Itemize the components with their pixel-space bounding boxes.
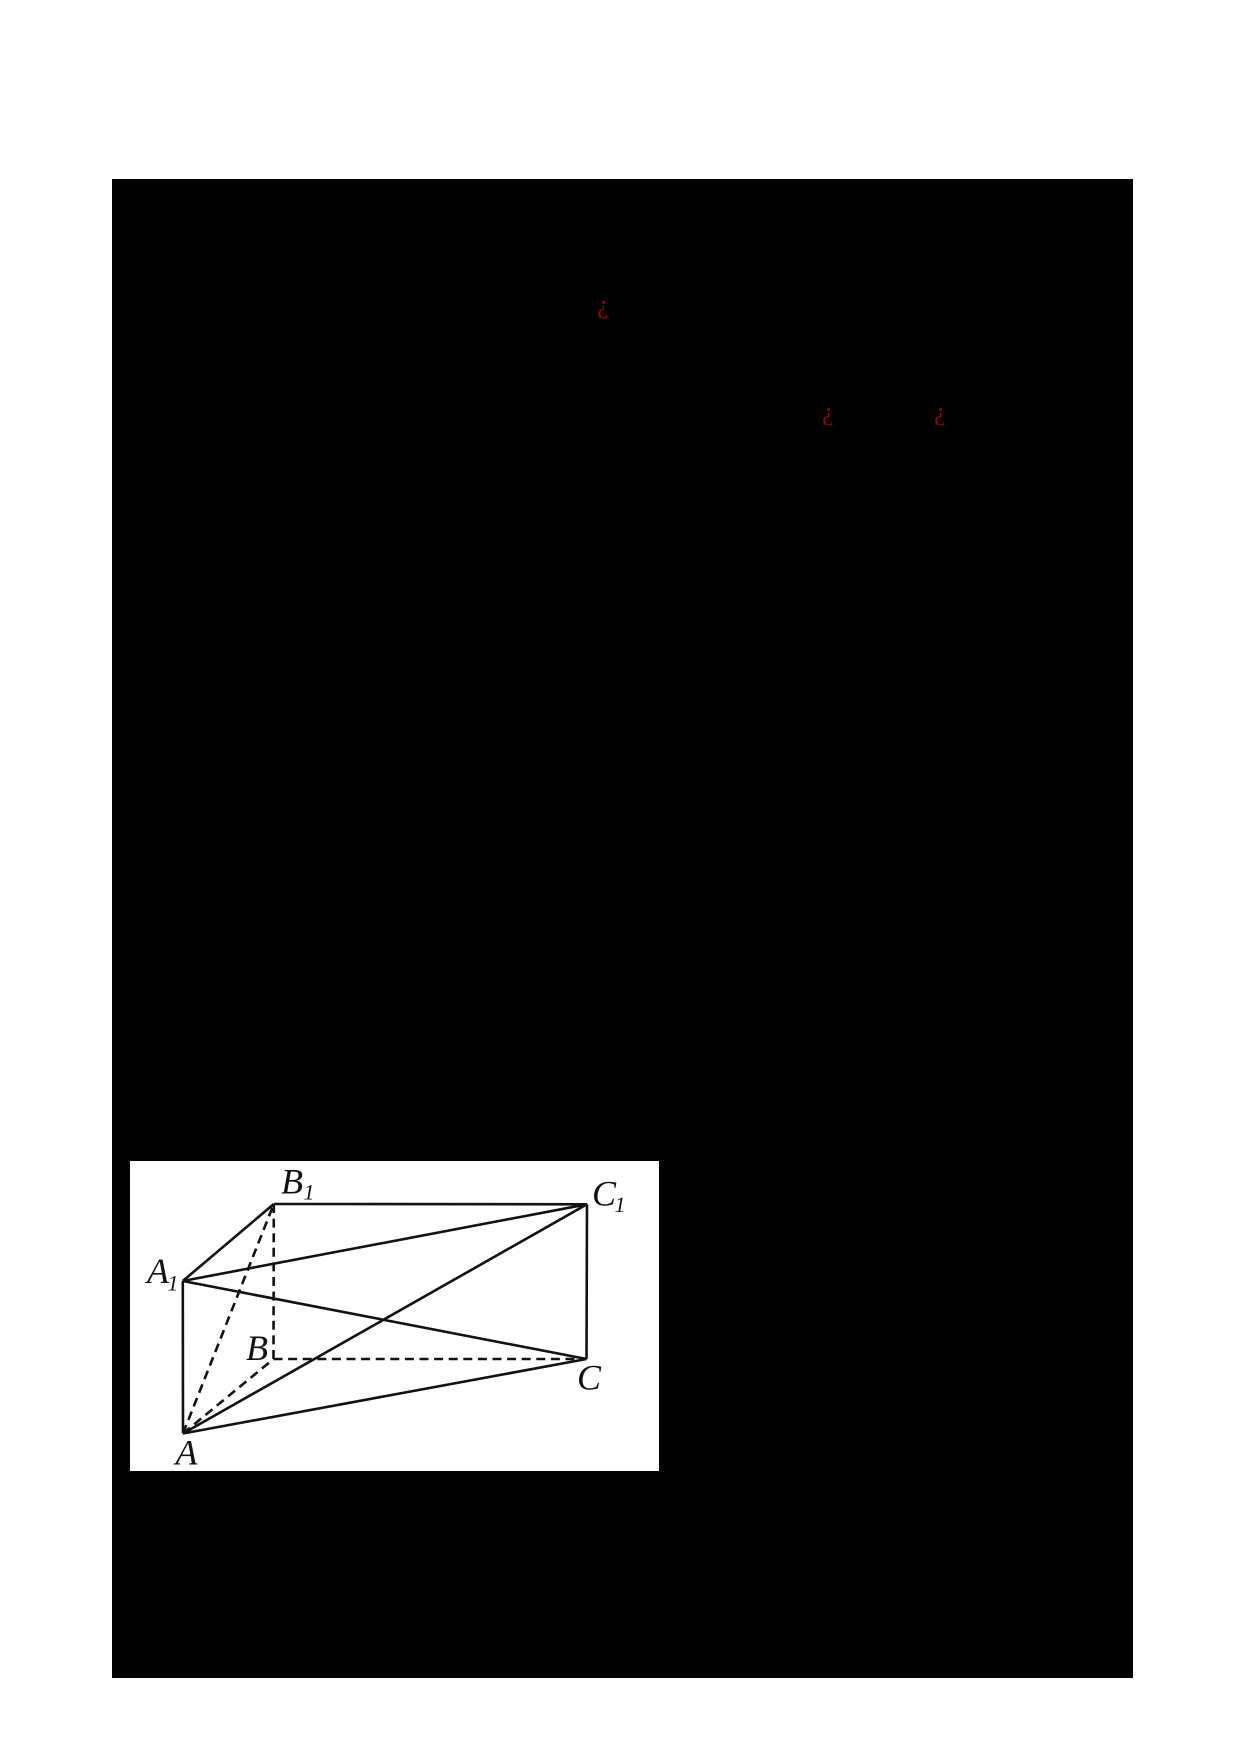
svg-text:B: B xyxy=(246,1328,268,1368)
svg-text:1: 1 xyxy=(304,1180,315,1205)
diagonal A-C1 xyxy=(183,1204,587,1433)
red glyph 1 xyxy=(597,292,609,318)
edge B1-C1 xyxy=(274,1203,587,1206)
svg-text:B: B xyxy=(281,1162,303,1202)
edge A-A1 xyxy=(182,1281,185,1434)
edge A-C xyxy=(183,1359,587,1434)
hidden edge A-B dashed xyxy=(183,1359,274,1434)
edge A1-C1 xyxy=(183,1204,587,1281)
svg-text:C: C xyxy=(592,1174,617,1214)
red glyph 3 xyxy=(934,399,946,425)
diagonal A1-C xyxy=(183,1281,587,1359)
svg-text:C: C xyxy=(577,1358,602,1398)
svg-text:1: 1 xyxy=(168,1270,179,1295)
hidden diagonal A-B1 dashed xyxy=(183,1204,274,1434)
hidden edge B-C dashed xyxy=(274,1358,587,1361)
white figure panel: triangular prism ABC-A1B1C1 xyxy=(130,1161,659,1471)
svg-text:A: A xyxy=(145,1251,170,1291)
svg-text:1: 1 xyxy=(615,1192,626,1217)
hidden edge B-B1 dashed xyxy=(272,1204,275,1359)
red glyph 2 xyxy=(822,399,834,425)
black page body (invisible text area) xyxy=(112,179,1133,1678)
edge C-C1 xyxy=(585,1204,588,1359)
svg-text:A: A xyxy=(174,1433,199,1472)
edge A1-B1 xyxy=(183,1204,274,1281)
